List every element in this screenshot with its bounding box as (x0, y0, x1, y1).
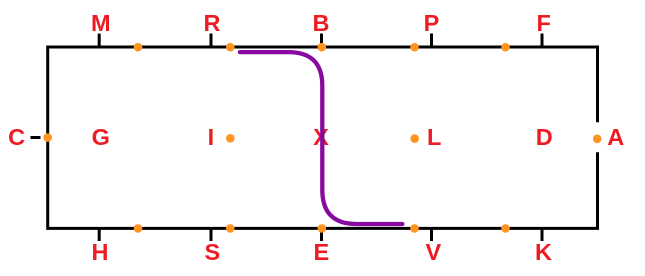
svg-text:A: A (607, 124, 624, 150)
dot node C on left edge (43, 133, 52, 142)
svg-text:H: H (92, 239, 109, 265)
dot on bottom edge 1 (134, 224, 143, 233)
tick K (541, 228, 544, 241)
svg-text:R: R (204, 10, 221, 36)
dot on bottom edge 3 (node E) (318, 224, 327, 233)
tick E (320, 228, 323, 241)
tick M (98, 34, 101, 47)
dot on bottom edge 5 (501, 224, 510, 233)
svg-text:M: M (91, 10, 111, 36)
dot on top edge 2 (node R) (226, 43, 235, 52)
svg-text:C: C (8, 124, 25, 150)
dot on bottom edge 2 (226, 224, 235, 233)
tick B (320, 34, 323, 48)
svg-text:E: E (314, 239, 330, 265)
tick C (31, 136, 41, 139)
svg-text:F: F (537, 10, 551, 36)
wire: purple route from R to V (240, 52, 403, 224)
dot beside node I (226, 134, 235, 143)
dot on top edge 3 (node B) (318, 43, 327, 52)
dot on top edge 1 (134, 43, 143, 52)
svg-text:I: I (208, 124, 215, 150)
svg-text:L: L (427, 124, 441, 150)
tick R (210, 34, 213, 48)
svg-text:P: P (424, 10, 440, 36)
svg-text:S: S (204, 239, 220, 265)
wire: rectangle border with gap on right side at node A (48, 47, 598, 228)
svg-text:B: B (313, 10, 330, 36)
dot on top edge 4 (410, 43, 419, 52)
tick F (541, 34, 544, 48)
dot beside node L (410, 134, 419, 143)
svg-text:D: D (536, 124, 553, 150)
svg-text:G: G (92, 124, 110, 150)
tick P (430, 34, 433, 48)
tick H (98, 228, 101, 241)
svg-text:K: K (535, 239, 552, 265)
tick V (430, 228, 433, 241)
svg-text:V: V (425, 239, 441, 265)
dot on top edge 5 (501, 43, 510, 52)
tick S (210, 228, 213, 241)
dot node A on right edge (593, 135, 602, 144)
dot on bottom edge 4 (node V) (410, 224, 419, 233)
